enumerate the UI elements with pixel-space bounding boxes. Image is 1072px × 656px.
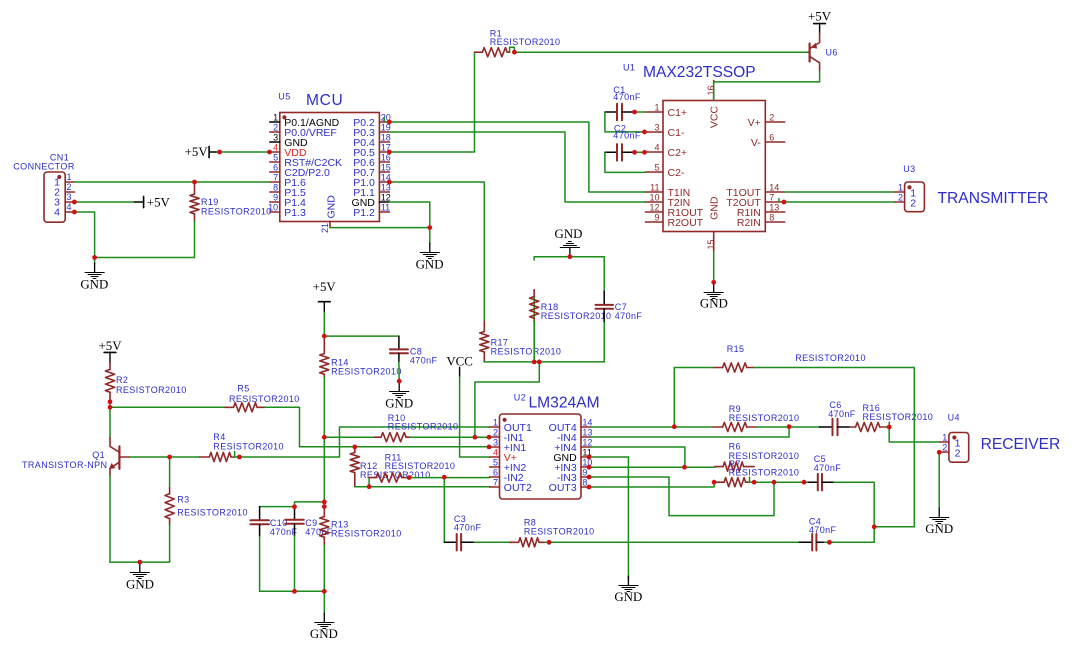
wire +IN3 row (pin10) to R6 — [591, 466, 715, 468]
power +5V (R14) — [313, 280, 337, 312]
svg-text:GND: GND — [126, 577, 154, 591]
wire R12 bottom to OUT2 — [355, 486, 490, 488]
IC U2 LM324AM — [490, 393, 600, 499]
capacitor C7 — [596, 291, 643, 321]
junction at (489,437) — [487, 435, 492, 440]
svg-text:U4: U4 — [948, 413, 960, 423]
resistor R9 — [713, 404, 799, 432]
wire C9/C10/R13 bottom rail — [260, 536, 325, 613]
svg-text:1: 1 — [493, 417, 498, 427]
junction at (239,457) — [237, 455, 242, 460]
svg-text:+5V: +5V — [185, 145, 209, 159]
svg-text:470nF: 470nF — [410, 356, 438, 366]
junction at (539,362) — [537, 360, 542, 365]
svg-text:RECEIVER: RECEIVER — [981, 436, 1061, 453]
junction at (95,258) — [92, 255, 97, 260]
svg-text:U3: U3 — [903, 164, 915, 174]
svg-text:U5: U5 — [278, 91, 290, 101]
svg-text:RESISTOR2010: RESISTOR2010 — [116, 385, 187, 395]
svg-text:2: 2 — [910, 197, 916, 209]
junction at (634,112) — [632, 110, 637, 115]
svg-text:U6: U6 — [826, 48, 838, 58]
resistor R2 — [105, 363, 186, 401]
wire R18/C7 bottom to -IN1 net — [475, 362, 539, 437]
svg-text:RESISTOR2010: RESISTOR2010 — [795, 353, 866, 363]
wire R4 to OUT1 — [239, 427, 489, 457]
wire R11 to -IN2 — [406, 477, 490, 479]
wire -IN2 down to C3 row — [443, 477, 445, 542]
svg-text:+5V: +5V — [808, 10, 832, 24]
svg-text:4: 4 — [273, 142, 278, 152]
transistor Q1 (NPN) — [22, 438, 130, 476]
svg-text:470nF: 470nF — [454, 523, 482, 533]
junction at (369,487) — [367, 484, 372, 489]
ground GND (R13) — [310, 613, 338, 641]
wire OUT2 up to R11 — [368, 478, 370, 487]
wire MCU GND pin21 — [330, 228, 430, 244]
svg-text:OUT2: OUT2 — [504, 482, 532, 494]
junction at (389,122) — [387, 120, 392, 125]
svg-text:2: 2 — [273, 122, 278, 132]
resistor R13 — [320, 507, 402, 546]
capacitor C3 — [444, 514, 481, 550]
junction at (220,152) — [217, 150, 222, 155]
wire R5 row from R2 — [110, 406, 225, 408]
junction at (409,478) — [407, 475, 412, 480]
svg-text:CONNECTOR: CONNECTOR — [13, 161, 75, 171]
junction at (170,457) — [167, 455, 172, 460]
junction at (589,457) — [587, 455, 592, 460]
svg-text:C1+: C1+ — [668, 107, 688, 119]
junction at (714,482) — [712, 480, 717, 485]
svg-text:12: 12 — [582, 437, 592, 447]
svg-text:GND: GND — [385, 396, 413, 410]
wire R19 bottom to GND rail — [95, 221, 195, 257]
wire CN1.1 to MCU P1.6 (net with R19) — [74, 181, 269, 183]
svg-text:2: 2 — [898, 192, 903, 202]
junction at (355,447) — [352, 445, 357, 450]
svg-text:3: 3 — [67, 192, 72, 202]
svg-text:RESISTOR2010: RESISTOR2010 — [863, 412, 934, 422]
svg-text:3: 3 — [654, 122, 659, 132]
svg-text:1: 1 — [654, 102, 659, 112]
svg-text:LM324AM: LM324AM — [529, 395, 600, 412]
junction at (74,212) — [72, 210, 77, 215]
wire R14 bottom to R10 row — [323, 378, 325, 438]
wire R9 to C6 — [757, 426, 820, 428]
svg-text:470nF: 470nF — [270, 527, 298, 537]
svg-text:10: 10 — [268, 202, 278, 212]
svg-text:1: 1 — [942, 432, 947, 442]
wire Q1 emitter down — [109, 476, 111, 563]
resistor R19 — [190, 182, 272, 221]
resistor R15 — [714, 344, 866, 372]
svg-text:GND: GND — [614, 590, 642, 604]
wire MCU P1.0 to R17 — [389, 182, 484, 321]
svg-text:RESISTOR2010: RESISTOR2010 — [331, 366, 402, 376]
wire R7 to C5 — [754, 481, 808, 483]
svg-text:RESISTOR2010: RESISTOR2010 — [388, 422, 459, 432]
svg-text:6: 6 — [493, 467, 498, 477]
wire C1 left to C1- pin — [605, 112, 646, 132]
svg-text:14: 14 — [769, 182, 779, 192]
svg-text:6: 6 — [273, 162, 278, 172]
resistor R14 — [320, 336, 402, 377]
svg-text:7: 7 — [493, 477, 498, 487]
junction at (644,132) — [642, 130, 647, 135]
label RECEIVER — [981, 436, 1061, 453]
MCU U5 — [268, 91, 391, 233]
wire -IN3 row (pin9) loop — [591, 477, 774, 516]
junction at (324,336) — [322, 334, 327, 339]
resistor R3 — [165, 457, 248, 525]
junction at (324,507) — [322, 504, 327, 509]
wire U4.2 to GND — [938, 452, 940, 508]
power VCC — [446, 355, 473, 377]
resistor R5 — [225, 384, 300, 412]
svg-text:P1.2: P1.2 — [353, 207, 375, 219]
wire R10 to -IN1 — [410, 436, 490, 438]
junction at (514,52) — [512, 50, 517, 55]
svg-text:16: 16 — [706, 85, 716, 95]
junction at (939,452) — [937, 450, 942, 455]
ground GND (MAX232) — [700, 282, 728, 311]
wire -IN4 row (pin13) up to R9/C6 net — [591, 427, 789, 437]
resistor R6 — [715, 441, 799, 471]
wire CN1.3 to +5V — [74, 201, 134, 203]
svg-text:1: 1 — [273, 112, 278, 122]
svg-text:470nF: 470nF — [809, 525, 837, 535]
svg-text:RESISTOR2010: RESISTOR2010 — [729, 413, 800, 423]
junction at (194,182) — [192, 180, 197, 185]
capacitor C8 — [390, 336, 438, 381]
ground GND (C8) — [385, 382, 413, 410]
svg-text:2: 2 — [493, 427, 498, 437]
svg-text:4: 4 — [54, 207, 60, 219]
svg-text:5: 5 — [273, 152, 278, 162]
wire C5 right to junction — [834, 482, 874, 542]
svg-text:3: 3 — [273, 132, 278, 142]
svg-text:9: 9 — [654, 212, 659, 222]
wire OUT3 row (pin8) to R7 — [591, 482, 714, 487]
svg-text:15: 15 — [706, 239, 716, 249]
transistor U6 (PNP) — [808, 33, 838, 70]
junction at (324,437) — [322, 435, 327, 440]
svg-text:R2OUT: R2OUT — [668, 217, 704, 229]
junction at (754,482) — [752, 480, 757, 485]
svg-text:470nF: 470nF — [828, 409, 856, 419]
svg-text:4: 4 — [493, 447, 498, 457]
capacitor C10 — [250, 507, 297, 538]
svg-text:RESISTOR2010: RESISTOR2010 — [201, 206, 272, 216]
junction at (430,228) — [427, 225, 432, 230]
resistor R18 — [530, 290, 612, 362]
IC U1 MAX232TSSOP — [623, 63, 785, 252]
junction at (589,477) — [587, 475, 592, 480]
wire R1 to U6 base — [514, 51, 808, 53]
wire CN1.4 to GND — [74, 212, 94, 258]
power +5V (R2) — [98, 339, 122, 363]
svg-text:3: 3 — [493, 437, 498, 447]
svg-text:R2: R2 — [116, 375, 128, 385]
junction at (714,282) — [711, 280, 716, 285]
wire R14 top to C8 — [324, 335, 399, 337]
junction at (804,482) — [802, 480, 807, 485]
ground GND (inverted, R18/C7 top) — [555, 227, 583, 254]
junction at (110,407) — [108, 405, 113, 410]
svg-text:2: 2 — [955, 447, 961, 459]
wire R5 to U2 +IN1 — [265, 407, 490, 447]
capacitor C2 — [605, 123, 641, 160]
svg-text:RESISTOR2010: RESISTOR2010 — [541, 311, 612, 321]
svg-text:RESISTOR2010: RESISTOR2010 — [331, 528, 402, 538]
capacitor C1 — [605, 85, 641, 120]
svg-text:R2IN: R2IN — [737, 217, 761, 229]
svg-text:R15: R15 — [727, 344, 745, 354]
svg-text:R6: R6 — [729, 441, 741, 451]
wire VCC to U2 V+ — [460, 377, 490, 457]
wire MCU P0.3 to MAX232 T2IN — [389, 132, 645, 202]
connector U4 — [940, 413, 969, 463]
connector CN1 — [13, 152, 75, 222]
svg-text:GND: GND — [700, 297, 728, 311]
junction at (644,152) — [642, 150, 647, 155]
junction at (549,542) — [547, 540, 552, 545]
svg-text:RESISTOR2010: RESISTOR2010 — [490, 37, 561, 47]
wire C3 to R8 — [474, 541, 509, 543]
junction at (389,182) — [387, 180, 392, 185]
svg-text:18: 18 — [381, 132, 391, 142]
svg-text:R3: R3 — [177, 494, 189, 504]
wire C2 left to C2- pin — [605, 152, 646, 172]
svg-text:7: 7 — [273, 172, 278, 182]
wire Q1 base row — [130, 456, 200, 458]
junction at (324,502) — [322, 500, 327, 505]
svg-text:RESISTOR2010: RESISTOR2010 — [491, 347, 562, 357]
svg-text:TRANSMITTER: TRANSMITTER — [938, 190, 1049, 207]
svg-text:5: 5 — [654, 162, 659, 172]
junction at (589,487) — [587, 485, 592, 490]
svg-text:RESISTOR2010: RESISTOR2010 — [385, 461, 456, 471]
power +5V (U6) — [808, 10, 832, 34]
svg-text:470nF: 470nF — [613, 131, 641, 141]
svg-text:GND: GND — [709, 196, 721, 220]
svg-text:2: 2 — [67, 182, 72, 192]
wire R2 bottom junction — [109, 401, 111, 438]
wire MCU P0.5 to R1 — [389, 52, 474, 152]
wire R18/C7 loop — [484, 257, 604, 362]
junction at (140,562) — [137, 560, 142, 565]
svg-text:8: 8 — [273, 182, 278, 192]
svg-text:GND: GND — [80, 277, 108, 291]
wire R14 line down to R13 — [323, 437, 325, 506]
svg-text:RESISTOR2010: RESISTOR2010 — [229, 394, 300, 404]
power +5V (MCU VDD) — [185, 145, 217, 159]
svg-text:MAX232TSSOP: MAX232TSSOP — [643, 64, 756, 81]
svg-text:U2: U2 — [514, 393, 526, 403]
capacitor C5 — [808, 454, 841, 490]
svg-text:12: 12 — [649, 202, 659, 212]
svg-text:9: 9 — [273, 192, 278, 202]
wire C9/C10 to R13 top — [260, 502, 325, 507]
junction at (784,202) — [782, 200, 787, 205]
svg-text:1: 1 — [898, 182, 903, 192]
svg-text:TRANSISTOR-NPN: TRANSISTOR-NPN — [22, 460, 107, 470]
ground GND (U2 pin11) — [614, 576, 642, 604]
junction at (570,257) — [568, 254, 573, 259]
svg-text:RESISTOR2010: RESISTOR2010 — [524, 527, 595, 537]
svg-text:11: 11 — [381, 202, 390, 212]
svg-text:C2-: C2- — [668, 167, 685, 179]
resistor R4 — [200, 432, 284, 462]
svg-text:P1.3: P1.3 — [284, 207, 306, 219]
svg-text:8: 8 — [769, 212, 774, 222]
junction at (874,527) — [872, 524, 877, 529]
svg-text:RESISTOR2010: RESISTOR2010 — [729, 468, 800, 478]
resistor R1 — [475, 28, 561, 57]
svg-text:21: 21 — [320, 223, 330, 233]
wire R16 to U4.1 — [889, 427, 940, 442]
wire C1 right to C1+ pin — [634, 111, 645, 113]
svg-text:+5V: +5V — [313, 280, 337, 294]
wire R10 row left — [324, 436, 374, 438]
junction at (489,447) — [487, 445, 492, 450]
junction at (475,437) — [473, 435, 478, 440]
svg-text:VCC: VCC — [446, 355, 473, 369]
svg-text:Q1: Q1 — [92, 450, 105, 460]
svg-text:9: 9 — [582, 467, 587, 477]
svg-text:470nF: 470nF — [615, 311, 643, 321]
ground GND (CN1) — [80, 258, 108, 292]
wire MAX232 GND pin15 — [713, 251, 715, 282]
svg-text:10: 10 — [649, 192, 659, 202]
junction at (444,477) — [442, 475, 447, 480]
svg-text:1: 1 — [67, 172, 72, 182]
svg-text:2: 2 — [769, 112, 774, 122]
svg-text:VCC: VCC — [709, 106, 721, 129]
wire MCU P0.2 to MAX232 T1IN — [384, 118, 645, 193]
junction at (684,467) — [682, 465, 687, 470]
junction at (534,362) — [532, 360, 537, 365]
wire R15 net left (to OUT4) — [674, 368, 714, 427]
svg-text:GND: GND — [555, 227, 583, 241]
junction at (74,202) — [72, 200, 77, 205]
svg-text:GND: GND — [310, 627, 338, 641]
wire R8 to C4 — [545, 541, 799, 543]
wire MCU GND pin12 — [389, 202, 429, 228]
svg-text:15: 15 — [381, 162, 391, 172]
capacitor C4 — [799, 516, 836, 550]
svg-text:RESISTOR2010: RESISTOR2010 — [177, 507, 248, 517]
junction at (829,542) — [827, 540, 832, 545]
svg-text:2: 2 — [942, 442, 947, 452]
resistor R11 — [369, 452, 455, 482]
svg-text:11: 11 — [650, 182, 659, 192]
junction at (634,152) — [632, 150, 637, 155]
capacitor C9 — [285, 507, 333, 537]
svg-text:RESISTOR2010: RESISTOR2010 — [213, 441, 284, 451]
svg-text:5: 5 — [493, 457, 498, 467]
svg-text:14: 14 — [582, 417, 592, 427]
svg-text:4: 4 — [654, 142, 659, 152]
wire OUT4 row (pin14) to R9 — [591, 426, 713, 428]
junction at (399,381) — [397, 379, 402, 384]
capacitor C6 — [819, 400, 855, 435]
junction at (889,427) — [887, 425, 892, 430]
svg-text:4: 4 — [67, 202, 72, 212]
svg-text:C1-: C1- — [668, 127, 685, 139]
junction at (789,427) — [787, 424, 792, 429]
wire +5V to MCU VDD — [217, 151, 270, 153]
wire U6 collector to MAX232 VCC — [714, 71, 820, 101]
wire +IN4 row (pin12) down — [591, 447, 685, 467]
svg-text:+5V: +5V — [147, 195, 171, 209]
svg-text:C2+: C2+ — [668, 147, 688, 159]
label TRANSMITTER — [938, 190, 1049, 207]
resistor R7 — [714, 459, 799, 487]
svg-text:+5V: +5V — [98, 339, 122, 353]
wire T1OUT to U3.1 — [785, 191, 895, 193]
junction at (674,427) — [672, 424, 677, 429]
svg-text:7: 7 — [769, 192, 774, 202]
junction at (589,467) — [587, 465, 592, 470]
svg-text:6: 6 — [769, 132, 774, 142]
svg-text:OUT3: OUT3 — [549, 482, 577, 494]
svg-text:MCU: MCU — [306, 92, 343, 109]
junction at (324,591) — [322, 589, 327, 594]
wire GND row (pin11) — [591, 457, 628, 580]
svg-text:U1: U1 — [623, 63, 635, 73]
svg-text:13: 13 — [582, 427, 592, 437]
svg-text:13: 13 — [769, 202, 779, 212]
svg-text:R5: R5 — [237, 384, 249, 394]
svg-text:GND: GND — [326, 195, 338, 219]
junction at (294,507) — [292, 504, 297, 509]
junction at (110,402) — [108, 399, 113, 404]
ground GND (Q1) — [126, 562, 154, 591]
resistor R16 — [850, 403, 934, 432]
junction at (270,152) — [267, 150, 272, 155]
resistor R17 — [480, 321, 562, 362]
wire T2OUT to U3.2 — [779, 199, 895, 202]
svg-text:470nF: 470nF — [814, 463, 842, 473]
junction at (294,591) — [292, 589, 297, 594]
svg-text:V-: V- — [751, 137, 761, 149]
resistor R12 — [350, 447, 430, 487]
connector U3 — [895, 164, 924, 212]
svg-text:470nF: 470nF — [613, 92, 641, 102]
svg-text:V+: V+ — [748, 117, 761, 129]
wire R15 right to C4/C5 junction — [754, 368, 914, 527]
ground GND (U4) — [925, 508, 953, 536]
power +5V (CN1 pin3) — [135, 195, 171, 209]
svg-text:12: 12 — [381, 192, 391, 202]
junction at (774,482) — [772, 480, 777, 485]
wire C4 right to junction — [825, 541, 874, 543]
svg-text:GND: GND — [416, 257, 444, 271]
wire C2 right to C2+ pin — [634, 151, 645, 153]
svg-text:GND: GND — [925, 522, 953, 536]
ground GND (MCU) — [416, 243, 444, 271]
junction at (389,152) — [387, 150, 392, 155]
resistor R10 — [375, 413, 459, 442]
wire R3 bottom / GND rail — [110, 525, 170, 562]
svg-text:8: 8 — [582, 477, 587, 487]
resistor R8 — [509, 518, 594, 547]
wire +5V to R14 — [323, 312, 325, 336]
